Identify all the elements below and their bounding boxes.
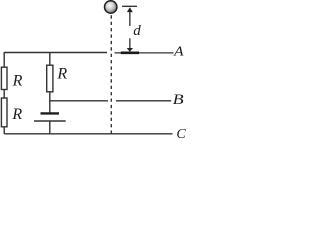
svg-text:B: B (173, 92, 184, 108)
svg-text:R: R (56, 65, 67, 82)
svg-text:R: R (12, 73, 23, 90)
svg-text:d: d (133, 23, 141, 39)
svg-text:R: R (11, 106, 22, 123)
svg-text:A: A (173, 44, 184, 59)
svg-text:C: C (176, 127, 186, 141)
